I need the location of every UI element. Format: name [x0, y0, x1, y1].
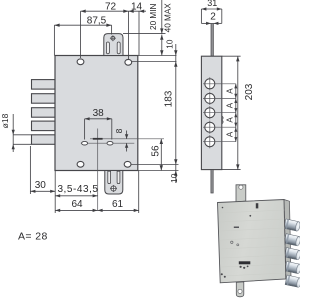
fixing hole top-left [77, 59, 84, 65]
cylinder guard (bottom) [105, 171, 123, 195]
arrow 14 right [139, 10, 144, 13]
arrow 8 up [125, 143, 128, 148]
nose top line [123, 33, 166, 35]
arrow 183 top up2 [174, 62, 177, 67]
arrow 56 up [160, 139, 163, 144]
arrow o18 down [12, 130, 15, 135]
guard screw [111, 186, 116, 191]
lock body [55, 56, 138, 171]
spindle bottom [211, 170, 213, 193]
arrow 2 left [206, 22, 211, 25]
nose slot right [117, 42, 120, 54]
arrow 38 left [85, 117, 90, 120]
arrow 87,5 right [106, 24, 111, 27]
face details [221, 203, 258, 278]
arrow 72 right [123, 10, 128, 13]
nose slot left [106, 42, 109, 54]
ext line body left edge up [53, 25, 55, 55]
arrow 2 right [214, 22, 219, 25]
body side face [284, 200, 291, 280]
arrow 3543 left [55, 194, 60, 197]
arrow 72 left [81, 10, 86, 13]
arrow 61 left [98, 209, 103, 212]
ext line 87.5 right (keyhole) [111, 25, 113, 34]
ext 38 right [111, 119, 113, 140]
ext 31 right [221, 9, 223, 23]
o18 ext bottom [13, 143, 31, 145]
svg-text:10: 10 [165, 39, 175, 49]
arrows A chain [234, 84, 237, 89]
bolt 5 iso [285, 275, 302, 288]
nose screw [111, 36, 115, 40]
svg-text:A: A [225, 88, 234, 94]
ext 38 left [84, 119, 86, 140]
bolt circle lines [203, 77, 236, 148]
ext line hole TR up [128, 11, 130, 59]
svg-text:72: 72 [105, 2, 117, 13]
dim 2 line right [214, 22, 222, 24]
fixing hole bottom-right [124, 161, 131, 167]
svg-text:38: 38 [93, 108, 105, 119]
dim 203 line [237, 56, 239, 169]
arrow 30 left [30, 190, 35, 193]
bolt 1 iso [284, 219, 301, 232]
bolt 4 iso [285, 261, 302, 274]
bolt 3 iso [285, 248, 302, 261]
deadbolt 4 [32, 121, 56, 131]
svg-text:61: 61 [112, 199, 124, 210]
spindle top [211, 23, 213, 56]
arrow 87,5 left [54, 24, 59, 27]
brushed lines [219, 210, 286, 276]
fixing hole bottom-left [77, 161, 84, 167]
arrow 30 right [50, 190, 55, 193]
dim 3,5-43,5 line [55, 195, 97, 197]
ext 203 bottom [222, 169, 241, 171]
guard slot left [108, 171, 111, 183]
hole TR leader [132, 61, 177, 63]
svg-text:203: 203 [244, 83, 255, 100]
183 dim line [175, 44, 177, 183]
svg-text:56: 56 [151, 145, 162, 157]
arrow 183 bottom down [174, 159, 177, 164]
top tab hole [239, 185, 243, 189]
o18 dim line [12, 114, 14, 152]
svg-text:14: 14 [131, 2, 143, 13]
bolt circle 1 [205, 79, 215, 89]
arrow 64 right [93, 209, 98, 212]
arrow 203 bottom [236, 164, 239, 169]
bolt circle 2 [205, 93, 215, 103]
arrow 183 top down [174, 50, 177, 55]
dim 8 line lower [126, 143, 128, 151]
dim 31 line [201, 8, 221, 10]
arrow 203 top [236, 56, 239, 61]
arrow 56 down [160, 165, 163, 170]
56 dim line [160, 139, 162, 171]
dim 64/61 line [55, 209, 139, 211]
fixing hole top-right [125, 59, 132, 65]
deadbolt 1 [32, 80, 56, 90]
svg-text:40 MAX: 40 MAX [163, 3, 172, 33]
20/40 dim line [161, 0, 163, 34]
svg-text:ø18: ø18 [0, 113, 10, 128]
svg-text:183: 183 [163, 90, 174, 107]
body bottom ext right [138, 170, 179, 172]
svg-text:20 MIN: 20 MIN [149, 4, 158, 30]
svg-text:A= 28: A= 28 [18, 231, 48, 243]
dim 8 line upper [126, 131, 128, 139]
arrowheads front dims [12, 10, 178, 212]
svg-text:A: A [225, 131, 234, 137]
screw line through key holes [81, 142, 135, 144]
dim line 72/14 [81, 10, 147, 12]
arrow 10t up [160, 35, 163, 40]
o18 ext top [13, 134, 31, 136]
edge notch [222, 116, 223, 124]
arrow 3543 right [93, 194, 98, 197]
svg-text:3,5-43,5: 3,5-43,5 [57, 184, 98, 195]
arrow 31 right [217, 7, 222, 10]
dim A chain line [235, 84, 237, 142]
arrow 8 down [125, 134, 128, 139]
bolt 2 iso [284, 234, 301, 247]
key hole left [82, 141, 88, 145]
deadbolt 3 [32, 108, 56, 118]
key hole right [107, 141, 113, 145]
dim 2 line left [201, 22, 211, 24]
10 top dim line [161, 35, 163, 56]
bolt circle 3 [205, 108, 215, 118]
body top ext right [138, 55, 177, 57]
ext line body right edge up [138, 11, 140, 55]
dim 38 line [85, 118, 112, 120]
dim 30 line [30, 190, 55, 192]
svg-text:8: 8 [114, 128, 124, 133]
arrow 14 left [129, 10, 134, 13]
bolt circle 5 [205, 137, 215, 147]
bolt circle 4 [205, 122, 215, 132]
guard slot right [117, 171, 120, 183]
arrow 61 right [134, 209, 139, 212]
svg-text:10: 10 [169, 173, 179, 183]
ext 203 top [222, 55, 241, 57]
arrow o18 up [12, 144, 15, 149]
ext body left down [54, 171, 56, 214]
arrow 10t down [160, 50, 163, 55]
svg-text:64: 64 [71, 199, 83, 210]
arrow 183 bottom up [174, 171, 177, 176]
dim line 87,5 [54, 24, 111, 26]
svg-text:87,5: 87,5 [87, 15, 107, 26]
svg-text:30: 30 [35, 180, 47, 191]
body front face [218, 200, 286, 283]
svg-text:2: 2 [210, 11, 216, 22]
arrow 64 left [55, 209, 60, 212]
ext body right down [138, 171, 140, 214]
cylinder center thick mark [93, 138, 103, 140]
svg-text:A: A [225, 102, 234, 108]
bottom tab [236, 282, 244, 297]
ext 31 left [200, 9, 202, 23]
top tab [236, 185, 246, 202]
faceplate [201, 56, 221, 169]
ext 30 left [29, 146, 31, 194]
deadbolt 5 [32, 135, 56, 145]
bottom tab hole [238, 289, 242, 293]
cylinder nose (top) [104, 34, 123, 56]
cylinder centerline vertical [97, 129, 99, 211]
svg-text:31: 31 [207, 0, 217, 8]
arrow 20/40 down [160, 28, 163, 33]
cylinder centerline horizontal [90, 138, 164, 140]
deadbolt 2 [32, 94, 56, 104]
arrow 38 right [107, 117, 112, 120]
hole BR leader [131, 164, 179, 166]
arrow 31 left [201, 7, 206, 10]
svg-text:A: A [225, 117, 234, 123]
ext line hole TL up [80, 11, 82, 58]
